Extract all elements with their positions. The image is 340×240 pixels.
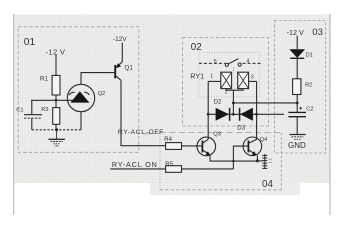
- svg-text:C2: C2: [306, 107, 313, 113]
- wire relay pin2 vertical: [232, 90, 234, 114]
- dashed box 03: [275, 21, 326, 154]
- junction Q3/Q4 link: [232, 160, 234, 162]
- node A junction: [55, 99, 58, 102]
- relay RY1 switch dashed line: [199, 62, 225, 64]
- wire Q2 top to Q1 base: [81, 73, 114, 85]
- svg-text:Q2: Q2: [98, 91, 105, 97]
- resistor R3: [55, 100, 57, 107]
- junction R2/C2/relay: [296, 102, 299, 105]
- wire -12V to Q1 emitter: [121, 43, 123, 62]
- svg-text:02: 02: [191, 42, 202, 53]
- halftone figure background: [15, 15, 330, 184]
- switch contact 5: [225, 63, 228, 66]
- resistor R1: [52, 75, 60, 95]
- resistor R4: [166, 143, 182, 150]
- dashed box 01: [18, 27, 139, 153]
- svg-text:D1: D1: [306, 53, 313, 59]
- transistor Q1: [115, 62, 122, 81]
- svg-text:C1: C1: [16, 108, 23, 114]
- svg-text:04: 04: [262, 179, 273, 190]
- svg-text:R3: R3: [41, 107, 48, 113]
- wire down to C1: [31, 100, 33, 114]
- wire vertical link to Q4 base: [233, 146, 248, 169]
- wire Q3 emitter down: [210, 156, 258, 162]
- svg-text:3: 3: [251, 75, 254, 81]
- svg-text:D3: D3: [237, 124, 245, 131]
- svg-text:1: 1: [210, 74, 213, 80]
- junction on dashed wire: [55, 128, 58, 131]
- svg-text:R2: R2: [305, 82, 312, 88]
- wire R2 to C2: [296, 95, 298, 113]
- wire Q1 collector down to box 04: [121, 80, 166, 145]
- hatch ground (box 04): [262, 154, 272, 169]
- ground GND (box 03): [289, 135, 305, 140]
- diode D3: [240, 108, 253, 121]
- junction pin2/R2 wire: [232, 102, 235, 105]
- svg-text:R1: R1: [40, 75, 49, 82]
- wire C2 to ground: [296, 117, 298, 135]
- relay RY1 enclosure (dotted): [199, 53, 260, 98]
- switch arm: [228, 59, 238, 65]
- wire coil2 right lead: [249, 80, 257, 82]
- wire D1 to R2: [296, 58, 298, 79]
- junction Q4 emitter: [256, 159, 259, 162]
- transistor Q3: [197, 137, 216, 156]
- capacitor C1: [24, 115, 42, 119]
- svg-text:Q4: Q4: [260, 137, 267, 143]
- wire RY-ACL ON stub: [110, 168, 165, 170]
- svg-text:4: 4: [246, 59, 249, 65]
- svg-text:D2: D2: [214, 100, 222, 106]
- wire Q2 bottom: [80, 112, 82, 130]
- svg-text:R4: R4: [164, 137, 172, 143]
- right page border line: [329, 14, 331, 215]
- svg-text:GND: GND: [288, 141, 306, 150]
- wire -12V to D1: [296, 36, 298, 50]
- resistor R2: [293, 79, 301, 95]
- dashed box 02: [183, 38, 269, 127]
- wire right vertical (coil2/rail/Q4 collector): [256, 81, 258, 139]
- svg-text:5: 5: [214, 59, 217, 65]
- svg-text:-12V: -12V: [113, 36, 127, 43]
- wire coil bottoms join: [226, 89, 243, 91]
- wire left vertical (coil1/rail/Q3 collector): [207, 81, 209, 139]
- svg-text:R5: R5: [165, 161, 173, 168]
- svg-text:RY-ACL-OFF: RY-ACL-OFF: [118, 129, 164, 136]
- svg-text:03: 03: [312, 27, 323, 38]
- relay RY1 coil 1: [221, 72, 232, 88]
- wire to hatch ground: [257, 160, 262, 162]
- wire C1 down: [31, 118, 33, 130]
- diode D2: [216, 108, 230, 121]
- svg-text:Q1: Q1: [125, 65, 134, 72]
- dashed box 04: [144, 133, 281, 190]
- wire -12V to R1: [55, 55, 57, 76]
- ground (box 01): [48, 130, 65, 146]
- wire node A horizontal: [31, 99, 74, 101]
- wire R5 to link: [182, 168, 234, 170]
- wire R1 to node A: [55, 95, 57, 100]
- relay link tick: [233, 67, 235, 72]
- left page border line: [13, 14, 15, 215]
- switch contact 4: [238, 63, 241, 66]
- junction rail middle: [232, 113, 235, 116]
- junction rail right: [255, 113, 258, 116]
- svg-text:01: 01: [24, 37, 36, 48]
- svg-text:RY-ACL ON: RY-ACL ON: [112, 160, 158, 169]
- wire R3 down: [55, 124, 57, 130]
- capacitor C2: [288, 107, 306, 117]
- wire R4 to Q3: [182, 145, 203, 147]
- transistor Q4: [243, 137, 262, 156]
- svg-text:RY1: RY1: [190, 72, 204, 81]
- svg-text:-12 V: -12 V: [287, 28, 304, 37]
- junction rail left: [207, 113, 210, 116]
- diode D1: [289, 49, 305, 58]
- diode rail: [208, 113, 284, 115]
- dashed wire bottom of box 01: [32, 129, 81, 131]
- photo device Q2: [67, 84, 94, 111]
- relay RY1 coil 2: [238, 72, 249, 88]
- wire Q4 emitter down: [256, 155, 258, 161]
- resistor R5: [166, 166, 182, 173]
- wire coil1 left lead: [208, 80, 221, 82]
- wire pin2 to R2/C2 node: [233, 102, 297, 104]
- svg-text:Q3: Q3: [213, 132, 221, 138]
